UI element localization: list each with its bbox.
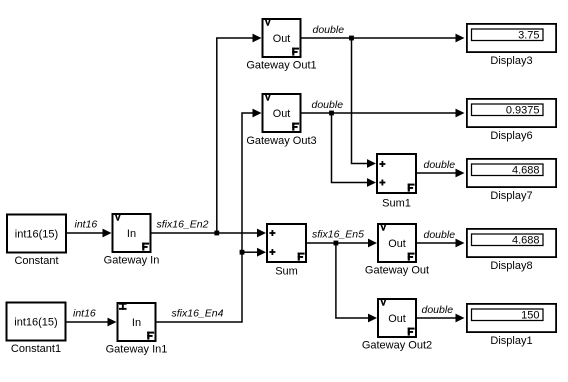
wire Gateway In1 up to Gateway Out3 [156, 113, 253, 322]
block Gateway Out1 [263, 19, 301, 57]
wire Sum1 to Display7 [417, 172, 457, 174]
block Display8 [467, 229, 556, 257]
wire Gateway Out1 to Display3 [301, 37, 456, 39]
svg-text:Display7: Display7 [490, 190, 532, 202]
svg-text:double: double [312, 99, 344, 111]
arrowhead into Gateway Out [368, 239, 377, 248]
block Constant [7, 215, 66, 253]
svg-text:Display6: Display6 [490, 130, 532, 142]
svg-text:Display3: Display3 [490, 55, 532, 67]
block Gateway Out2 [378, 299, 416, 337]
block Display1 [467, 304, 556, 332]
svg-text:Out: Out [388, 313, 406, 325]
block Constant1 [7, 303, 66, 341]
wire Constant1 to Gateway In1 [66, 321, 109, 323]
svg-text:sfix16_En5: sfix16_En5 [312, 229, 364, 241]
arrowhead into Sum input 1 [257, 229, 266, 238]
arrowhead into Display1 [456, 314, 465, 323]
svg-text:Gateway Out: Gateway Out [365, 265, 429, 277]
svg-text:Display8: Display8 [490, 260, 532, 272]
svg-text:0.9375: 0.9375 [506, 105, 540, 117]
block Gateway Out3 [263, 94, 301, 132]
arrowhead into Display8 [456, 239, 465, 248]
wire branch down to Gateway Out2 [336, 243, 369, 318]
wire Gateway In to Sum input 1 [151, 232, 258, 234]
svg-text:sfix16_En4: sfix16_En4 [172, 308, 224, 320]
junction node double (Gateway Out1) [349, 36, 354, 41]
svg-text:int16(15): int16(15) [14, 317, 57, 329]
block Display3 [467, 24, 556, 52]
block Display6 [467, 99, 556, 127]
block Gateway Out [378, 224, 416, 262]
arrowhead into Gateway In [103, 229, 112, 238]
wire branch down to Sum1 input 2 [332, 113, 368, 183]
junction node sfix16_En2 [214, 231, 219, 236]
arrowhead into Gateway Out3 [253, 109, 262, 118]
arrowhead into Gateway Out2 [368, 314, 377, 323]
wire Gateway Out to Display8 [417, 242, 457, 244]
block Gateway In1 [118, 303, 156, 341]
svg-text:double: double [422, 304, 454, 316]
arrowhead into Sum1 input 1 [367, 159, 376, 168]
svg-text:double: double [424, 229, 456, 241]
junction node sfix16_En5 [334, 241, 339, 246]
svg-text:Out: Out [388, 238, 406, 250]
block Display7 [467, 159, 556, 187]
svg-text:Gateway In: Gateway In [104, 255, 160, 267]
wire branch to Sum input 2 [242, 251, 258, 253]
svg-text:Constant: Constant [14, 255, 58, 267]
svg-text:Sum1: Sum1 [382, 198, 411, 210]
arrowhead into Gateway In1 [108, 318, 117, 327]
wire branch down to Sum1 input 1 [352, 38, 368, 164]
svg-text:In: In [127, 228, 136, 240]
block Gateway In [113, 214, 151, 252]
svg-text:Constant1: Constant1 [11, 343, 61, 355]
svg-text:Gateway Out3: Gateway Out3 [246, 135, 316, 147]
arrowhead into Gateway Out1 [253, 34, 262, 43]
arrowhead into Sum1 input 2 [367, 178, 376, 187]
wire Sum to Gateway Out [307, 242, 369, 244]
wire branch up to Gateway Out1 [217, 38, 253, 233]
svg-text:Gateway In1: Gateway In1 [106, 344, 168, 356]
svg-text:Out: Out [273, 33, 291, 45]
svg-text:3.75: 3.75 [518, 30, 539, 42]
arrowhead into Display7 [456, 169, 465, 178]
block Sum1 [377, 154, 416, 193]
svg-text:int16(15): int16(15) [15, 229, 58, 241]
junction node double (Gateway Out3) [329, 111, 334, 116]
svg-text:Out: Out [273, 108, 291, 120]
block Sum [267, 224, 306, 262]
svg-text:sfix16_En2: sfix16_En2 [157, 219, 209, 231]
svg-text:In: In [132, 317, 141, 329]
wire Constant to Gateway In [66, 232, 103, 234]
svg-text:Gateway Out2: Gateway Out2 [362, 340, 432, 352]
svg-text:4.688: 4.688 [512, 165, 540, 177]
junction node sfix16_En4 [240, 250, 245, 255]
svg-text:4.688: 4.688 [512, 235, 540, 247]
svg-text:Gateway Out1: Gateway Out1 [246, 60, 316, 72]
wire Gateway Out2 to Display1 [417, 317, 457, 319]
svg-text:150: 150 [521, 310, 539, 322]
svg-text:Display1: Display1 [490, 335, 532, 347]
arrowhead into Display6 [456, 109, 465, 118]
svg-text:Sum: Sum [275, 266, 298, 278]
arrowhead into Sum input 2 [257, 248, 266, 257]
arrowhead into Display3 [456, 34, 465, 43]
svg-text:double: double [424, 159, 456, 171]
svg-text:int16: int16 [75, 219, 98, 231]
svg-text:int16: int16 [73, 308, 96, 320]
wire Gateway Out3 to Display6 [301, 112, 456, 114]
svg-text:double: double [313, 24, 345, 36]
